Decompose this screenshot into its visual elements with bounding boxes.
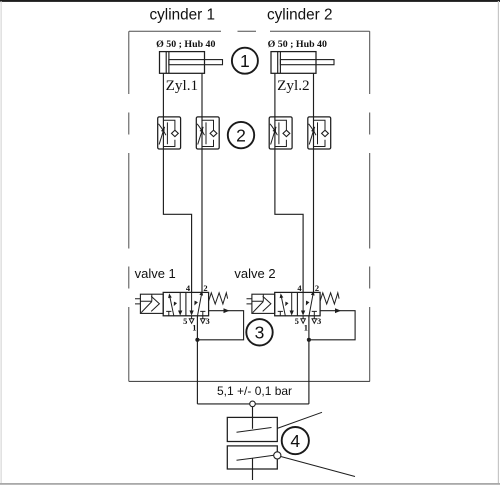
svg-text:5,1 +/- 0,1 bar: 5,1 +/- 0,1 bar [217,384,292,398]
valve 1 right position flow path 1-2 [197,292,202,316]
air service unit body [227,446,277,469]
flow control valve 1A throttle line [166,122,168,144]
valve 2 return spring [320,293,339,304]
wire through flow control 1B [201,117,203,149]
svg-text:Zyl.2: Zyl.2 [277,77,309,94]
flow control valve 2B check valve poppet [322,130,329,136]
valve 2 5/2 body [275,292,320,315]
flow control valve 1A throttle curve [159,124,166,135]
svg-text:3: 3 [255,323,265,343]
valve 1 right position flow path 4-5 [191,292,193,310]
flow control valve 1B adjustment arrow [198,127,204,145]
flow control valve 1B throttle line [205,122,207,144]
wire flow control 1A to valve 1 port 4 (with jog) [163,149,191,292]
svg-text:Ø 50 ; Hub 40: Ø 50 ; Hub 40 [156,39,215,50]
flow control valve 2A check-valve branch [275,120,287,146]
valve 2 port 1 junction [307,338,311,342]
cylinder 2 piston rod [280,60,334,65]
flow control valve 1B check-valve branch [202,120,214,146]
svg-text:2: 2 [315,283,319,293]
system boundary frame right edge (dash-dot) [369,31,371,381]
flow control valve 1A check-valve branch [163,120,175,146]
svg-text:1: 1 [240,51,250,71]
valve 2 body center divider [296,292,298,315]
wire through flow control 2A [274,117,276,149]
air service unit outlet wire [252,458,254,480]
cylinder 1 body Zyl barrel [160,52,205,74]
flow control valve 1B check valve poppet [210,130,217,136]
item number balloon 3 [246,319,272,345]
system boundary frame bottom edge [129,380,370,382]
wire through flow control 2B [313,117,315,149]
svg-text:5: 5 [183,316,187,326]
valve 2 exhaust port 5 silencer [301,316,306,324]
wire flow control 2B to valve 2 port 2 [313,149,315,292]
cylinder 1 piston [165,52,167,74]
valve 2 solenoid electric stubs [247,299,252,304]
valve 1 left position flow path 2-3 [179,292,181,310]
valve 1 port 1 supply wire down [196,316,198,404]
valve 1 exhaust port 3 silencer [201,316,206,324]
svg-text:cylinder 1: cylinder 1 [150,7,215,24]
valve 2 right position flow path 4-5 [302,292,304,310]
wire flow control 2A to valve 2 port 4 (with jog) [275,149,303,292]
svg-text:3: 3 [205,316,209,326]
supply tap node [250,401,256,407]
valve 1 5/2 body [163,292,208,315]
valve 1 solenoid electric stubs [135,299,140,304]
item number balloon 2 [228,122,254,148]
svg-text:Ø 50 ; Hub 40: Ø 50 ; Hub 40 [268,39,327,50]
valve 2 left position blocked port 5 [278,311,283,316]
supply manifold wire between valve 1 and valve 2 [197,403,309,405]
window right border [498,1,499,484]
window bottom border [0,483,500,485]
valve 2 solenoid pilot actuator [252,294,275,313]
svg-text:2: 2 [203,283,207,293]
valve 1 left position detent mark [174,302,176,305]
svg-text:4: 4 [297,283,302,293]
wire cylinder 1 port B to flow control [201,73,203,117]
valve 1 pilot loop flow arrow [224,309,229,313]
wire supply node to pressure regulator [252,407,254,429]
svg-text:1: 1 [304,323,308,333]
flow control valve 2A adjustment arrow [271,127,277,145]
valve 1 port 1 junction [196,338,200,342]
valve 1 left position flow path 1-4 [169,295,174,317]
flow control valve 2B adjustment arrow [309,127,315,145]
pressure gauge circle [274,452,281,459]
item number balloon 4 [282,427,309,454]
valve 2 right position detent mark [306,301,309,305]
valve 2 pilot supply loop wire [309,311,355,340]
valve 1 right position blocked port 3 [200,311,205,316]
valve 2 left position flow path 2-3 [291,292,293,310]
cylinder 2 body Zyl barrel [271,52,316,74]
valve 1 body center divider [185,292,187,315]
flow control valve 1A body [158,117,181,149]
svg-text:valve 2: valve 2 [234,266,275,281]
svg-text:1: 1 [192,323,196,333]
valve 2 left position detent mark [286,302,288,305]
air service unit adjustment line [237,455,274,460]
flow control valve 1B body [196,117,219,149]
flow control valve 2B throttle curve [309,124,316,135]
valve 2 exhaust port 3 silencer [312,316,317,324]
system boundary frame left edge (dash-dot) [128,31,130,381]
flow control valve 2B body [308,117,331,149]
flow control valve 1B throttle curve [197,124,204,135]
system boundary frame top edge (dash-dot) [129,30,370,32]
wire cylinder 2 port A to flow control [274,73,276,117]
flow control valve 2B check-valve branch [314,120,326,146]
wire through flow control 1A [162,117,164,149]
flow control valve 1A adjustment arrow [159,127,165,145]
item number balloon 1 [232,48,258,74]
valve 2 right position flow path 1-2 [309,292,314,316]
valve 2 pilot loop flow arrow [335,309,340,313]
svg-text:cylinder 2: cylinder 2 [267,7,332,24]
window top border [0,0,500,2]
flow control valve 2A body [269,117,292,149]
pressure regulator adjustment line [237,428,272,433]
flow control valve 2A throttle curve [270,124,277,135]
window left border [1,1,2,484]
valve 1 solenoid pilot actuator [140,294,163,313]
valve 2 left position flow path 1-4 [281,295,286,317]
svg-text:4: 4 [290,431,300,451]
svg-text:Zyl.1: Zyl.1 [166,77,198,94]
pressure regulator body [227,417,277,441]
svg-text:valve 1: valve 1 [135,266,176,281]
flow control valve 1A check valve poppet [172,130,179,136]
cylinder 2 piston [277,52,279,74]
valve 1 right position detent mark [195,301,198,305]
wire cylinder 1 port A to flow control [162,73,164,117]
valve 2 right position blocked port 3 [312,311,317,316]
flow control valve 2A check valve poppet [283,130,290,136]
valve 1 return spring [209,293,228,304]
valve 1 left position blocked port 5 [166,311,171,316]
svg-text:2: 2 [236,125,246,145]
svg-text:3: 3 [317,316,321,326]
valve 1 exhaust port 5 silencer [189,316,194,324]
flow control valve 2B throttle line [317,122,319,144]
wire flow control 1B to valve 1 port 2 [201,149,203,292]
cylinder 1 piston rod [169,60,223,65]
wire cylinder 2 port B to flow control [313,73,315,117]
valve 1 pilot supply loop wire [197,311,243,340]
svg-text:4: 4 [186,283,191,293]
svg-text:5: 5 [295,316,299,326]
pressure regulator leader line [277,412,322,428]
air service unit leader line [281,457,355,477]
flow control valve 2A throttle line [278,122,280,144]
valve 2 port 1 supply wire down [308,316,310,404]
